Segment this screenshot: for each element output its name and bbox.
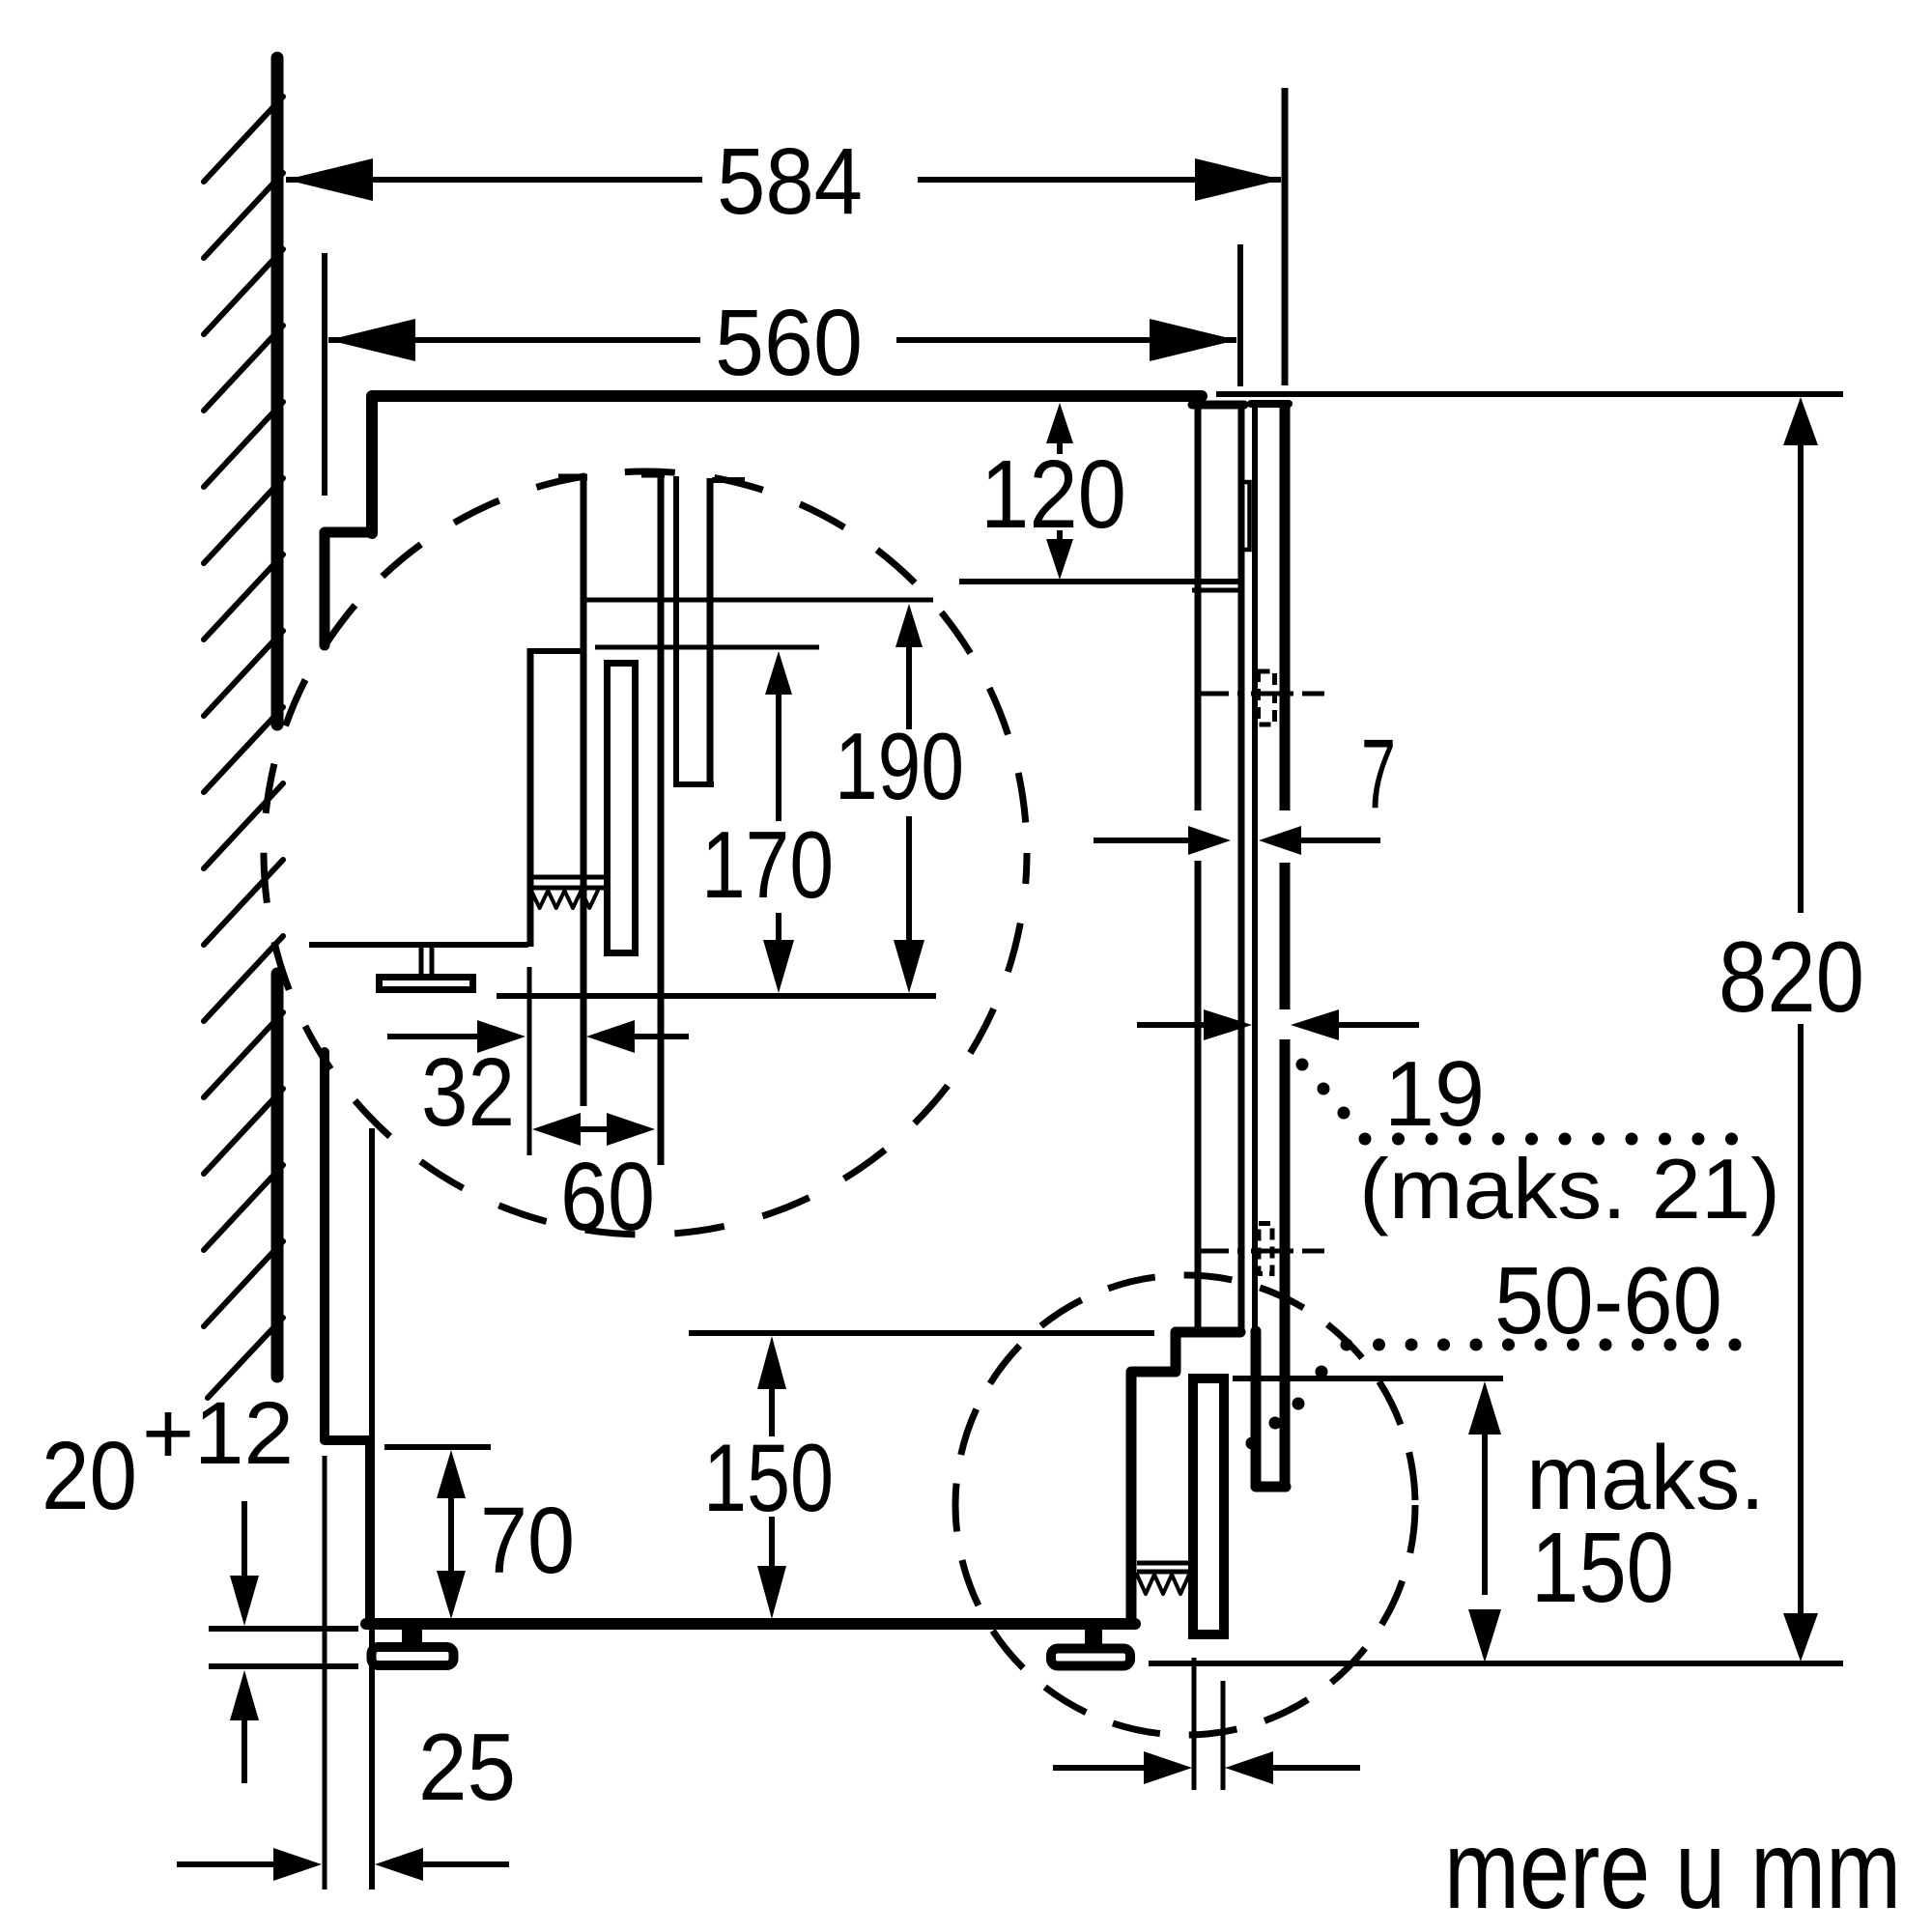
svg-text:170: 170 [701,811,834,918]
dimension line 170 [776,695,781,821]
bracket foot stem [419,948,424,974]
door panel division [959,579,1244,584]
arrowhead 150 down [757,1566,786,1619]
dotted leader 50-60 [1341,1339,1353,1351]
svg-text:25: 25 [418,1714,516,1820]
svg-text:150: 150 [703,1424,834,1531]
arrowhead 120 up [1046,403,1073,443]
bracket wall E [527,648,534,947]
wall [271,58,284,724]
inlet pipe C [673,476,679,784]
arrowhead 19 left [1204,1009,1252,1040]
door panel front face L2 [1238,405,1245,1332]
bracket foot plate [380,978,473,990]
arrowhead 120 down [1046,539,1073,580]
svg-text:190: 190 [835,713,964,819]
countertop line [1216,391,1843,397]
bracket shelf [309,942,528,948]
dimension line 7 right [1299,838,1380,843]
arrowhead 32 [477,1020,526,1053]
arrowhead maks150 down [1468,1609,1501,1662]
arrowhead 70 down [437,1571,466,1619]
extension line plinth right [1221,1681,1226,1790]
dotted leader 19 [1296,1059,1309,1071]
appliance rear protrusion lower [325,1052,370,1619]
arrowhead 584 left [286,158,373,201]
dimension line 19 right [1337,1022,1419,1028]
dimension line 70 [448,1498,454,1571]
arrowhead 190 up [895,604,923,647]
upper hinge dashed body [1259,671,1275,724]
extension line plinth left [1192,1658,1197,1790]
appliance top and left edge [372,396,1202,533]
svg-text:(maks. 21): (maks. 21) [1359,1141,1780,1236]
drain pipe rear wall [581,474,587,1106]
svg-text:150: 150 [1531,1512,1674,1623]
arrowhead 32 right [586,1020,635,1053]
reference line 190 [582,598,933,603]
reference line 150 [689,1330,1154,1336]
reference line maks150 [1233,1376,1503,1381]
dimension line 584 [286,177,702,183]
lower circle dashed [955,1275,1415,1735]
svg-text:70: 70 [480,1488,575,1593]
furniture door top bar [1251,400,1289,408]
dimension line 25 left [177,1861,277,1867]
dimension line 150 [769,1389,775,1436]
hose serration left [531,875,604,880]
arrowhead 190 down [894,940,924,993]
standpipe inner tube [608,664,636,953]
svg-text:60: 60 [560,1143,655,1251]
upper hinge centerline [1201,692,1229,696]
svg-text:32: 32 [421,1038,515,1147]
right foot stem [1085,1630,1102,1646]
arrowhead 7 right [1259,826,1301,855]
arrowhead maks150 up [1468,1381,1501,1435]
arrowhead 560 right [1150,319,1236,361]
inlet pipe D [707,478,714,784]
floor line [1149,1661,1843,1666]
svg-text:50-60: 50-60 [1494,1247,1722,1353]
bracket top [527,648,583,654]
wall hatching [204,97,283,182]
svg-text:mere u mm: mere u mm [1444,1808,1901,1932]
dimension line 120 [1057,443,1063,454]
extension line 560 left [322,253,327,496]
dimension line 7 left [1094,838,1190,843]
furniture door bottom channel [1256,1331,1286,1487]
arrowhead 60 right [607,1113,655,1146]
svg-text:584: 584 [717,128,863,234]
furniture door rear face L3 [1252,404,1258,1329]
arrowhead 7 left [1188,826,1231,855]
lower hinge centerline [1201,1249,1229,1254]
arrowhead 19 right [1291,1009,1339,1040]
extension line 25 right [369,1128,375,1889]
arrow 20 lower [230,1670,259,1720]
svg-text:+12: +12 [142,1384,294,1483]
arrowhead 70 up [437,1450,466,1498]
arrowhead 150 up [757,1336,786,1389]
right foot plate [1051,1649,1130,1666]
reference line 70 [384,1444,491,1450]
arrowhead plinth right [1225,1751,1273,1784]
left foot stem [402,1624,422,1643]
appliance bottom [366,1618,1135,1630]
extension line 584 right [1282,88,1289,385]
hose serration right [1137,1561,1188,1566]
dimension line plinth left [1053,1765,1148,1771]
appliance front bottom step [1131,1332,1240,1624]
reference line 170 [595,645,819,650]
reference line 20 upper [209,1626,358,1632]
svg-text:19: 19 [1384,1042,1485,1146]
reference line 20 lower [209,1663,358,1669]
extension line 25 left [323,1456,327,1889]
arrowhead 25 left [273,1848,322,1881]
arrowhead 560 left [328,319,415,361]
svg-text:820: 820 [1719,922,1864,1034]
dimension line 60 [579,1126,609,1132]
svg-text:120: 120 [980,440,1126,549]
plinth recess rectangle [1193,1378,1224,1634]
arrowhead 820 up [1783,397,1818,445]
dimension line 190 [906,647,912,729]
arrow 20 upper [241,1501,247,1577]
svg-text:560: 560 [715,290,863,395]
dimension line 820 [1798,443,1804,913]
drain hose line B [658,471,665,1165]
lower hinge dashed body [1259,1224,1272,1274]
door panel top bar [1192,401,1244,410]
svg-text:20: 20 [42,1422,137,1530]
arrowhead 170 down [763,940,794,993]
svg-text:7: 7 [1361,719,1396,829]
appliance rear protrusion upper [325,532,370,645]
dimension line 560 [328,337,700,343]
furniture door front face L4 [1280,404,1291,810]
arrowhead 25 right [375,1848,423,1881]
door panel rear face L1 [1195,405,1202,810]
hinge pin detail [1242,482,1250,550]
dimension line 19 left [1137,1022,1206,1028]
extension line 32 left [527,967,532,1155]
drum circle dashed [264,471,1027,1235]
arrowhead plinth left [1144,1751,1192,1784]
extension line 560 right [1237,244,1243,386]
dimension line 32 left [387,1034,481,1039]
arrowhead 60 left [532,1113,581,1146]
arrowhead 820 down [1783,1613,1818,1662]
left foot plate [372,1647,454,1665]
arrowhead 170 up [765,651,792,695]
bottom reference line [497,993,936,999]
dimension line maks150 [1482,1434,1488,1595]
arrowhead 584 right [1195,158,1282,201]
dimension line 25 right [419,1861,509,1867]
dimension line plinth right [1269,1765,1360,1771]
